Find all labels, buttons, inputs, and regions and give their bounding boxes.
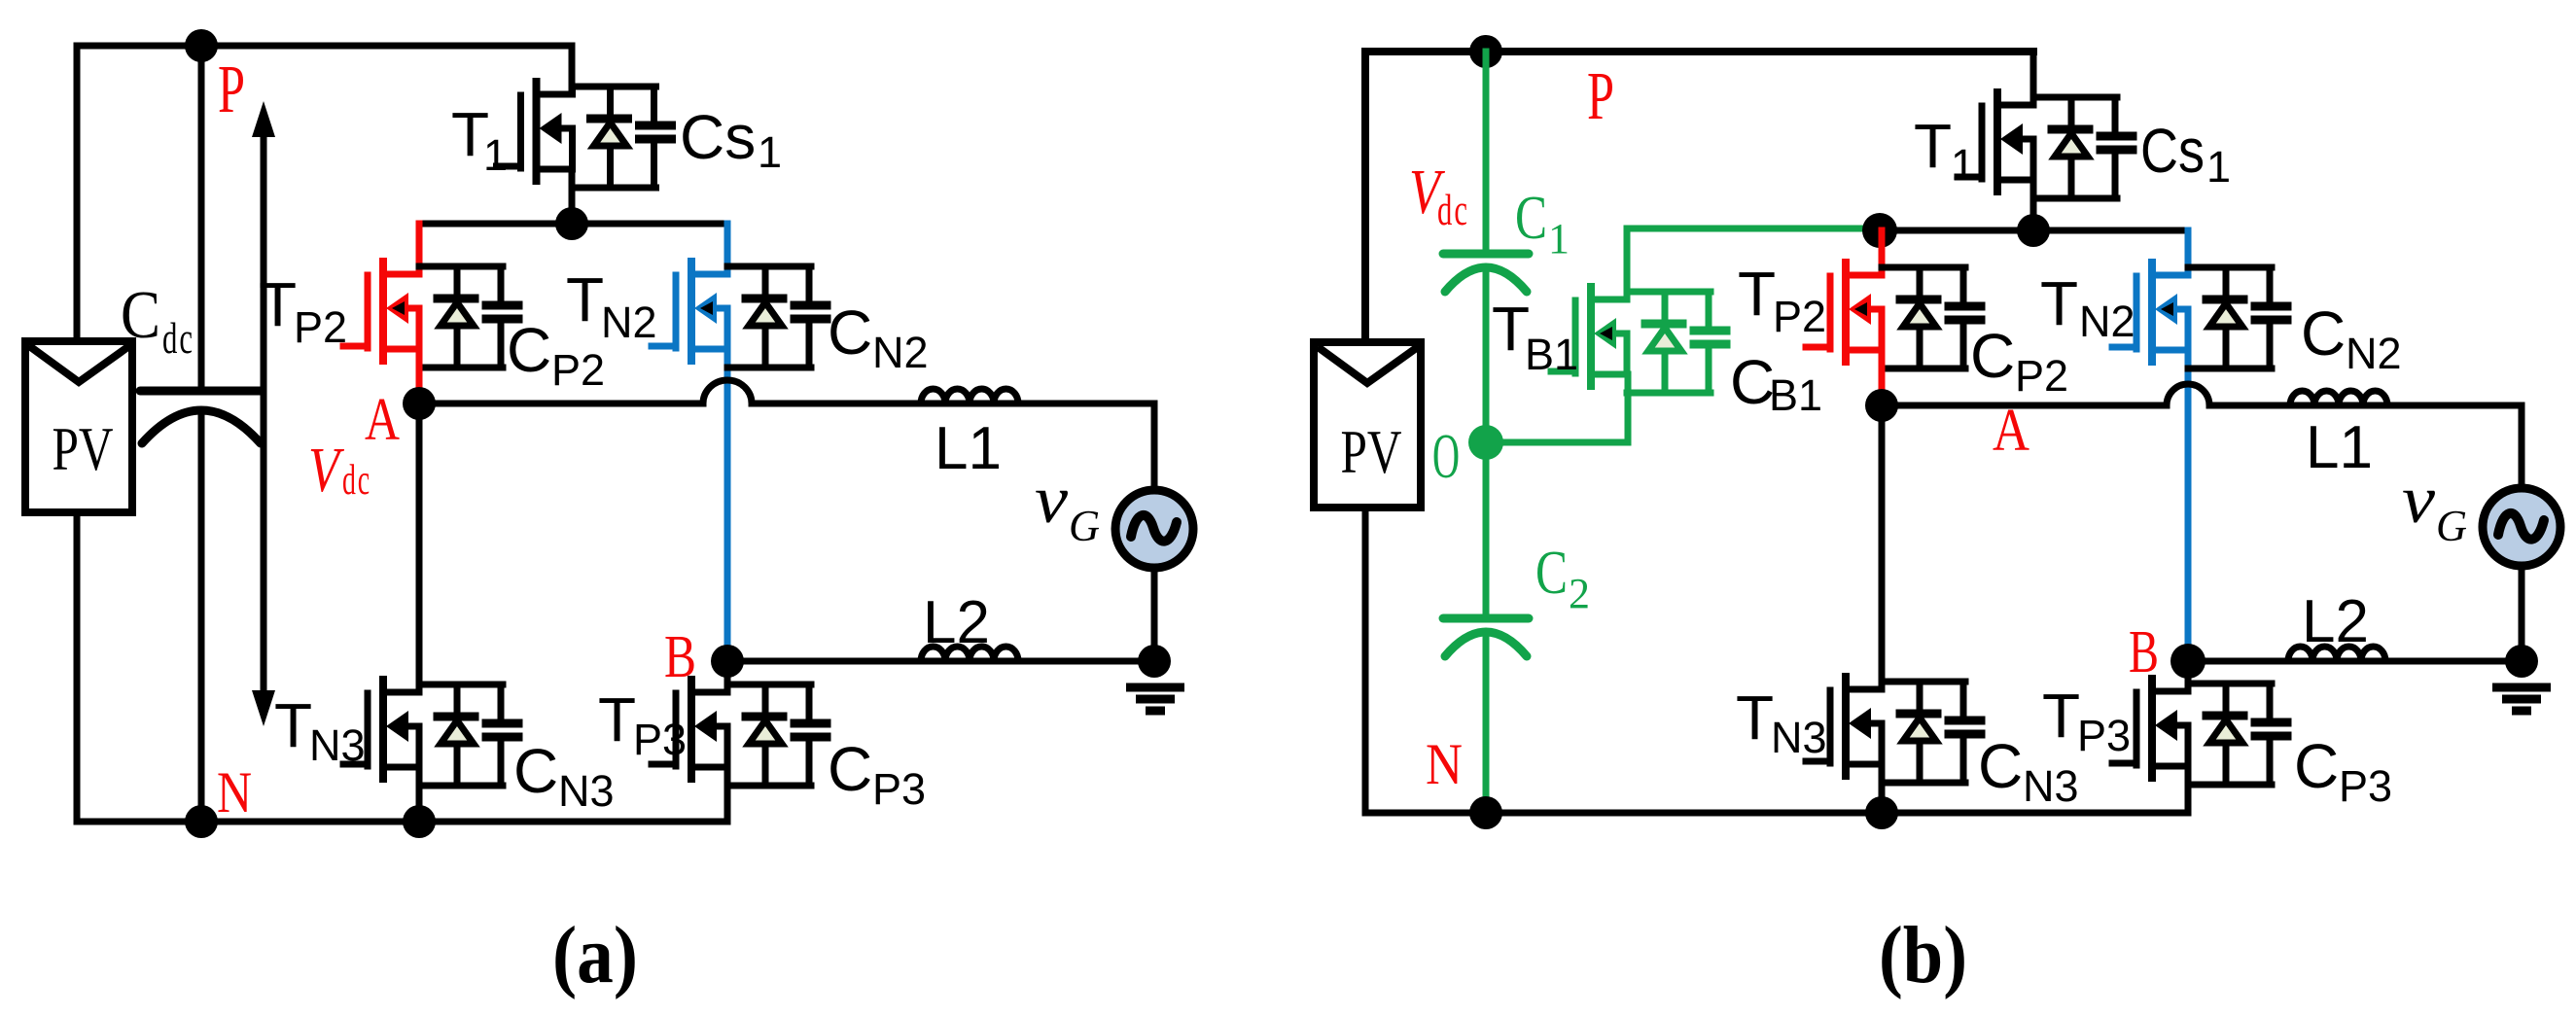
svg-text:PV: PV bbox=[53, 414, 114, 483]
ac grid source vG (b) bbox=[2483, 488, 2560, 566]
body diode of TP2 (a) bbox=[438, 266, 475, 368]
svg-text:C: C bbox=[1535, 538, 1568, 607]
body diode of TP2 (b) bbox=[1900, 267, 1937, 368]
svg-text:1: 1 bbox=[1548, 215, 1570, 263]
svg-text:T: T bbox=[259, 269, 297, 339]
svg-text:dc: dc bbox=[342, 456, 371, 504]
node P junction dot (a) bbox=[185, 29, 218, 62]
wire: TN2 drain (blue) bbox=[724, 224, 731, 268]
svg-text:P3: P3 bbox=[872, 764, 926, 814]
node dot TN3 source on N rail (b) bbox=[1865, 796, 1898, 829]
svg-text:L1: L1 bbox=[2306, 414, 2373, 481]
capacitor Cdc (polarized) bbox=[140, 391, 263, 443]
svg-text:L1: L1 bbox=[935, 415, 1002, 482]
node N dot (b) bbox=[1469, 796, 1502, 829]
snubber capacitor CP2 of TP2 (a) (parallel box) bbox=[419, 266, 518, 368]
wire: PV bottom to N rail (b) bbox=[1362, 508, 1369, 813]
node A dot (b) bbox=[1865, 389, 1898, 422]
transistor T1 (a) (MOSFET symbol) bbox=[497, 82, 573, 181]
wire: TN3 source to N rail (a) bbox=[416, 767, 423, 822]
wire: node B down to TP3 drain (a) bbox=[724, 661, 731, 685]
wire: vG bottom to ground node (b) bbox=[2519, 568, 2525, 661]
wire: TP2 source to node A (red, b) bbox=[1879, 350, 1886, 405]
wire: left drop from P rail to PV (a) bbox=[74, 46, 81, 341]
svg-text:T: T bbox=[1736, 683, 1774, 753]
wire: bottom N rail (a) bbox=[77, 819, 727, 825]
svg-text:P2: P2 bbox=[1773, 292, 1826, 341]
svg-text:P2: P2 bbox=[2015, 351, 2068, 401]
body diode of TP3 (a) bbox=[746, 684, 783, 786]
wire: mid rail of H-bridge top (b) bbox=[1880, 228, 2188, 234]
body diode of TN3 (a) bbox=[438, 684, 475, 786]
wire: top DC rail P (a) bbox=[77, 43, 572, 50]
transistor TN3 (a) (MOSFET symbol) bbox=[343, 680, 419, 779]
svg-text:C: C bbox=[828, 734, 872, 804]
capacitor C2 (green polarized) bbox=[1443, 618, 1529, 656]
wire: TN2 source down to node B (blue, b) bbox=[2185, 350, 2192, 661]
wire: TP2 drain (red) bbox=[416, 224, 423, 268]
snubber capacitor CP3 of TP3 (a) (parallel box) bbox=[727, 684, 827, 786]
svg-text:C: C bbox=[513, 736, 558, 806]
svg-text:N3: N3 bbox=[558, 766, 615, 816]
svg-text:C: C bbox=[121, 278, 160, 353]
wire: top DC rail P (b) bbox=[1365, 48, 2033, 55]
svg-text:T: T bbox=[2040, 268, 2078, 338]
wire: T1 drain from top rail (b) bbox=[2030, 52, 2037, 98]
snubber capacitor CN2 of TN2 (b) (parallel box) bbox=[2188, 267, 2287, 368]
wire: TP2 drain (red, b) bbox=[1879, 230, 1886, 269]
transistor TP3 (a) (MOSFET symbol) bbox=[652, 680, 727, 779]
solar panel PV (a) bbox=[25, 341, 132, 512]
svg-text:V: V bbox=[308, 435, 344, 506]
wire: node O to TB1 source (green) bbox=[1486, 374, 1628, 442]
wire: TP3 source to N rail (a) bbox=[724, 767, 731, 822]
svg-text:N2: N2 bbox=[2079, 297, 2135, 346]
snubber capacitor CN3 of TN3 (b) (parallel box) bbox=[1882, 682, 1981, 783]
transistor TN2 (b) (MOSFET symbol) bbox=[2112, 263, 2188, 362]
inductor L2 (a) bbox=[921, 647, 1018, 661]
body diode of TB1 (b) bbox=[1645, 292, 1682, 393]
wire: TN2 drain (blue, b) bbox=[2185, 230, 2192, 269]
svg-text:C: C bbox=[2301, 298, 2346, 368]
node dot T1 source on mid rail (b) bbox=[2017, 214, 2050, 247]
svg-text:T: T bbox=[2042, 681, 2080, 751]
svg-text:C: C bbox=[1970, 321, 2015, 391]
wire: node A down to TN3 drain (b) bbox=[1879, 405, 1886, 683]
svg-text:G: G bbox=[1069, 502, 1100, 550]
snubber capacitor CB1 of TB1 (b) (parallel box) bbox=[1627, 292, 1726, 393]
svg-text:P3: P3 bbox=[633, 715, 687, 764]
transistor TP3 (b) (MOSFET symbol) bbox=[2112, 679, 2188, 778]
svg-text:P: P bbox=[1587, 59, 1614, 134]
svg-text:C: C bbox=[507, 315, 551, 385]
svg-text:N2: N2 bbox=[872, 328, 929, 377]
svg-text:P2: P2 bbox=[294, 302, 347, 352]
wire: left drop from P rail to PV (b) bbox=[1361, 52, 1369, 342]
svg-text:1: 1 bbox=[2206, 142, 2231, 192]
node dot TN3 source on N rail (a) bbox=[403, 805, 436, 838]
svg-text:N3: N3 bbox=[309, 720, 366, 770]
wire: node B down to TP3 drain (b) bbox=[2185, 661, 2192, 684]
body diode of TP3 (b) bbox=[2206, 683, 2243, 785]
svg-text:Cs: Cs bbox=[2140, 116, 2205, 186]
svg-text:PV: PV bbox=[1341, 417, 1402, 486]
body diode of TN3 (b) bbox=[1900, 682, 1937, 783]
solar panel PV (b) bbox=[1314, 342, 1421, 508]
svg-text:1: 1 bbox=[1951, 140, 1975, 190]
svg-text:N2: N2 bbox=[601, 298, 657, 347]
body diode of T1 (b) bbox=[2052, 97, 2089, 198]
svg-text:N: N bbox=[217, 760, 252, 824]
svg-text:P3: P3 bbox=[2339, 761, 2392, 811]
wire: mid rail of H-bridge top (a) bbox=[419, 221, 727, 228]
svg-text:v: v bbox=[1035, 463, 1069, 538]
wire: TB1 drain up and right to mid rail (green) bbox=[1627, 228, 1880, 293]
svg-text:A: A bbox=[365, 387, 400, 453]
transistor T1 (b) (MOSFET symbol) bbox=[1958, 92, 2033, 192]
svg-text:T: T bbox=[274, 690, 312, 760]
svg-text:v: v bbox=[2402, 463, 2436, 538]
ac grid source vG (a) bbox=[1115, 490, 1193, 568]
Vdc measurement double arrow (a) bbox=[261, 117, 267, 711]
snubber capacitor CN3 of TN3 (a) (parallel box) bbox=[419, 684, 518, 786]
wire: T1 source to mid rail (a) bbox=[569, 169, 576, 224]
transistor TB1 (b) (MOSFET symbol) bbox=[1551, 287, 1627, 386]
svg-text:1: 1 bbox=[758, 127, 782, 177]
wire: TP3 source to N rail (b) bbox=[2185, 765, 2192, 813]
node dot T1 source on mid rail (a) bbox=[555, 207, 588, 240]
wire: TN3 source to N rail (b) bbox=[1879, 764, 1886, 813]
wire: T1 source to mid rail (b) bbox=[2030, 180, 2037, 230]
transistor TP2 (b) (MOSFET symbol) bbox=[1806, 263, 1882, 362]
svg-text:L2: L2 bbox=[923, 589, 990, 656]
inductor L1 (a) bbox=[921, 389, 1018, 403]
node dot Cdc on N rail (a) bbox=[185, 805, 218, 838]
ground node dot (b) bbox=[2505, 645, 2538, 678]
svg-text:(b): (b) bbox=[1879, 910, 1967, 1000]
node P junction dot (b) bbox=[1469, 35, 1502, 68]
svg-text:P: P bbox=[218, 53, 245, 127]
wire: TP2 source to node A (red) bbox=[416, 349, 423, 403]
snubber capacitor CP2 of TP2 (b) (parallel box) bbox=[1882, 267, 1981, 368]
wire: node A down to TN3 drain (a) bbox=[416, 403, 423, 685]
ground symbol (a) bbox=[1126, 687, 1184, 711]
svg-text:Cs: Cs bbox=[680, 102, 756, 172]
transistor TN3 (b) (MOSFET symbol) bbox=[1806, 677, 1882, 776]
svg-text:N3: N3 bbox=[1771, 713, 1827, 762]
capacitor Cdc upper stem bbox=[198, 46, 205, 387]
wire: node A rail with crossover hop to vG (b) bbox=[1882, 384, 2522, 490]
capacitor Cdc lower stem bbox=[198, 412, 205, 822]
svg-text:(a): (a) bbox=[552, 910, 638, 1000]
svg-text:T: T bbox=[1738, 259, 1776, 329]
svg-text:C: C bbox=[1515, 183, 1547, 252]
svg-text:N: N bbox=[1426, 732, 1463, 796]
inductor L1 (b) bbox=[2290, 391, 2387, 405]
snubber capacitor CN2 of TN2 (a) (parallel box) bbox=[727, 266, 827, 368]
svg-text:N3: N3 bbox=[2023, 761, 2079, 811]
ground symbol (b) bbox=[2492, 687, 2551, 711]
capacitor C1 lower stem to node O (green) bbox=[1483, 273, 1490, 442]
body diode of T1 (a) bbox=[591, 87, 628, 188]
node B dot (b) bbox=[2170, 644, 2205, 679]
capacitor C1 (green polarized) bbox=[1443, 254, 1529, 292]
snubber capacitor Cs1 of T1 (b) (parallel box) bbox=[2033, 97, 2133, 198]
svg-text:C: C bbox=[828, 298, 872, 368]
wire: vG bottom to ground node (a) bbox=[1151, 570, 1158, 661]
svg-text:O: O bbox=[1432, 421, 1460, 492]
snubber capacitor Cs1 of T1 (a) (parallel box) bbox=[573, 87, 672, 188]
wire: node B rail to ground (a) bbox=[727, 658, 1154, 665]
svg-text:B1: B1 bbox=[1525, 330, 1578, 379]
body diode of TN2 (a) bbox=[746, 266, 783, 368]
svg-text:N2: N2 bbox=[2346, 329, 2402, 378]
svg-text:C: C bbox=[1978, 731, 2023, 801]
svg-text:B1: B1 bbox=[1769, 370, 1822, 420]
wire: node A rail with crossover hop to vG (a) bbox=[419, 380, 1154, 494]
ground node dot (a) bbox=[1138, 645, 1171, 678]
svg-text:T: T bbox=[566, 264, 604, 334]
wire: TN2 source down to node B (blue) bbox=[724, 349, 731, 661]
wire: node B rail to ground (b) bbox=[2188, 658, 2522, 665]
svg-text:2: 2 bbox=[1569, 570, 1590, 617]
node A dot (a) bbox=[403, 387, 436, 420]
wire: T1 drain from top rail (a) bbox=[569, 46, 576, 88]
body diode of TN2 (b) bbox=[2206, 267, 2243, 368]
svg-text:T: T bbox=[1914, 111, 1952, 181]
svg-text:dc: dc bbox=[162, 313, 194, 363]
inductor L2 (b) bbox=[2288, 647, 2385, 661]
snubber capacitor CP3 of TP3 (b) (parallel box) bbox=[2188, 683, 2287, 785]
svg-text:G: G bbox=[2436, 502, 2467, 550]
svg-text:P3: P3 bbox=[2077, 711, 2131, 760]
capacitor C2 stem from O (green) bbox=[1483, 442, 1490, 614]
svg-text:dc: dc bbox=[1437, 186, 1469, 234]
transistor TN2 (a) (MOSFET symbol) bbox=[652, 262, 727, 361]
svg-text:1: 1 bbox=[483, 130, 508, 180]
svg-text:T: T bbox=[598, 684, 636, 754]
capacitor C2 lower stem to N rail (green) bbox=[1483, 638, 1490, 813]
svg-text:L2: L2 bbox=[2302, 588, 2369, 655]
node B dot (a) bbox=[711, 645, 744, 678]
svg-text:C: C bbox=[2294, 731, 2339, 801]
wire: bottom N rail (b) bbox=[1365, 810, 2188, 817]
svg-text:P2: P2 bbox=[551, 345, 605, 395]
capacitor C1 upper stem (green) bbox=[1483, 52, 1490, 250]
node dot TB1/mid-rail junction (b) bbox=[1862, 213, 1897, 248]
transistor TP2 (a) (MOSFET symbol) bbox=[343, 262, 419, 361]
node O dot (green) bbox=[1468, 425, 1503, 460]
wire: PV bottom to N rail (a) bbox=[74, 512, 81, 822]
